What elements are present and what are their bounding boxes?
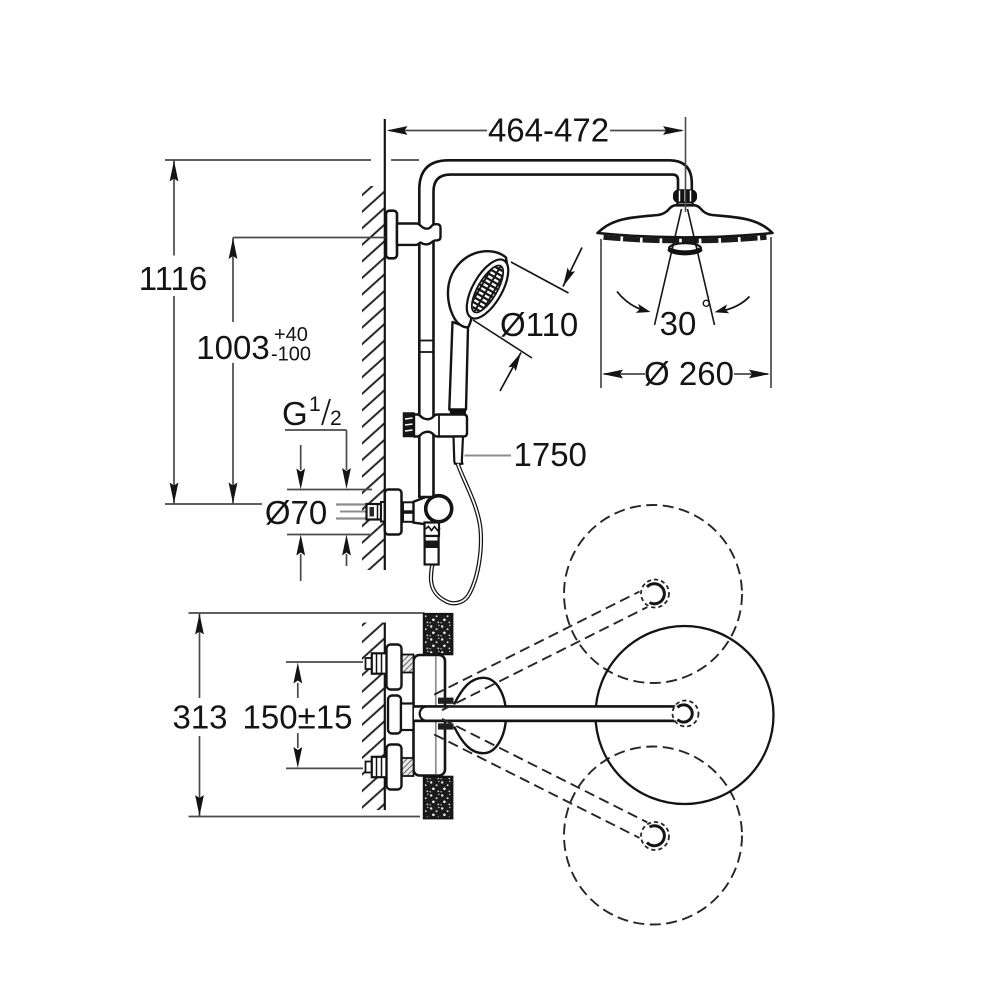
svg-text:464-472: 464-472 xyxy=(488,112,609,149)
plan ball joint xyxy=(673,701,699,727)
svg-text:1116: 1116 xyxy=(139,260,208,297)
plan union bottom xyxy=(366,745,414,790)
wall hatching plan view xyxy=(362,623,385,811)
dim diameter 260 xyxy=(601,237,771,392)
plan arm flange xyxy=(388,696,401,734)
plan swivel arm down position xyxy=(434,719,669,850)
svg-text:150±15: 150±15 xyxy=(243,699,353,736)
hose outlet nipple xyxy=(425,523,441,565)
dim 313 bottom extension line xyxy=(189,816,421,818)
rail collar joint xyxy=(419,341,433,353)
svg-text:2: 2 xyxy=(330,407,342,430)
plan mounting section top xyxy=(424,614,452,654)
swivel lines 30deg xyxy=(655,209,715,325)
wall face line plan view xyxy=(384,623,386,811)
shower rail pipe and top arm xyxy=(419,160,692,497)
head shower center cup xyxy=(669,243,701,253)
plan valve body face line xyxy=(435,656,437,774)
hand shower spray face xyxy=(455,253,520,325)
dim 150 bottom extension line xyxy=(286,767,363,769)
plan arm base xyxy=(401,704,414,731)
dim 150 top extension line xyxy=(286,661,363,663)
wall bracket arm xyxy=(397,224,441,245)
shower hose xyxy=(431,464,481,603)
plan head circle solid xyxy=(596,626,774,804)
svg-text:-100: -100 xyxy=(271,344,311,366)
wall hatching front view xyxy=(362,186,385,570)
head shower spray rim band xyxy=(604,237,767,241)
thermostat escutcheon front xyxy=(385,490,402,535)
thermostat valve body front xyxy=(414,496,434,525)
thermostat knob front xyxy=(426,496,452,522)
svg-text:G: G xyxy=(282,395,308,432)
head shower cone xyxy=(670,203,701,212)
hand shower body xyxy=(448,251,508,327)
hand shower handle xyxy=(449,322,468,410)
wall face line front view xyxy=(384,119,386,570)
hose connector below holder xyxy=(454,437,464,464)
dim 313 top extension line xyxy=(189,612,425,614)
plan dashed circle top xyxy=(564,505,742,683)
wall bracket plate xyxy=(386,211,397,259)
supply union nut xyxy=(367,502,386,522)
head shower body xyxy=(598,205,773,237)
svg-text:1750: 1750 xyxy=(514,436,587,473)
plan union top xyxy=(366,645,414,690)
svg-text:1: 1 xyxy=(309,393,321,416)
dim 1003 middle extension line xyxy=(233,237,398,239)
swivel arc arrows xyxy=(617,292,750,317)
thermostat union xyxy=(403,502,414,522)
dim 150 plus-minus 15 xyxy=(243,663,353,769)
svg-text:Ø70: Ø70 xyxy=(265,494,327,531)
dim diameter 110 xyxy=(473,248,582,392)
dim 1116 top extension line xyxy=(165,159,419,161)
svg-text:313: 313 xyxy=(172,699,227,736)
dim 464-472 extension line right xyxy=(685,117,687,212)
supply pipe stub xyxy=(336,505,367,519)
plan bell escutcheon xyxy=(415,678,677,753)
svg-text:1003: 1003 xyxy=(196,329,269,366)
svg-text:30: 30 xyxy=(660,305,697,342)
dim 1003 +40/-100 xyxy=(196,238,311,505)
hand shower handle end cap xyxy=(449,410,466,417)
plan swivel arm up position xyxy=(434,580,669,711)
svg-text:Ø110: Ø110 xyxy=(500,306,578,343)
plan mounting section bottom xyxy=(424,777,452,819)
label 30deg xyxy=(660,294,712,342)
dim 313 xyxy=(172,613,227,817)
plan dashed circle bottom xyxy=(564,747,742,925)
label 1750 xyxy=(465,436,587,473)
slider holder divider xyxy=(438,415,440,436)
dim diameter 70 xyxy=(265,445,372,581)
svg-text:Ø 260: Ø 260 xyxy=(644,355,734,392)
slider knurled knob xyxy=(404,413,415,437)
plan valve body xyxy=(414,655,446,776)
slider holder body xyxy=(414,415,467,437)
dim shared bottom extension line xyxy=(165,503,262,505)
dim 464-472 xyxy=(387,112,685,149)
dim 1116 xyxy=(139,160,208,504)
plan shower arm pipe xyxy=(414,706,677,721)
svg-text:°: ° xyxy=(701,294,711,324)
label G 1/2 with leader xyxy=(282,393,351,489)
head shower ball nut xyxy=(673,190,697,204)
